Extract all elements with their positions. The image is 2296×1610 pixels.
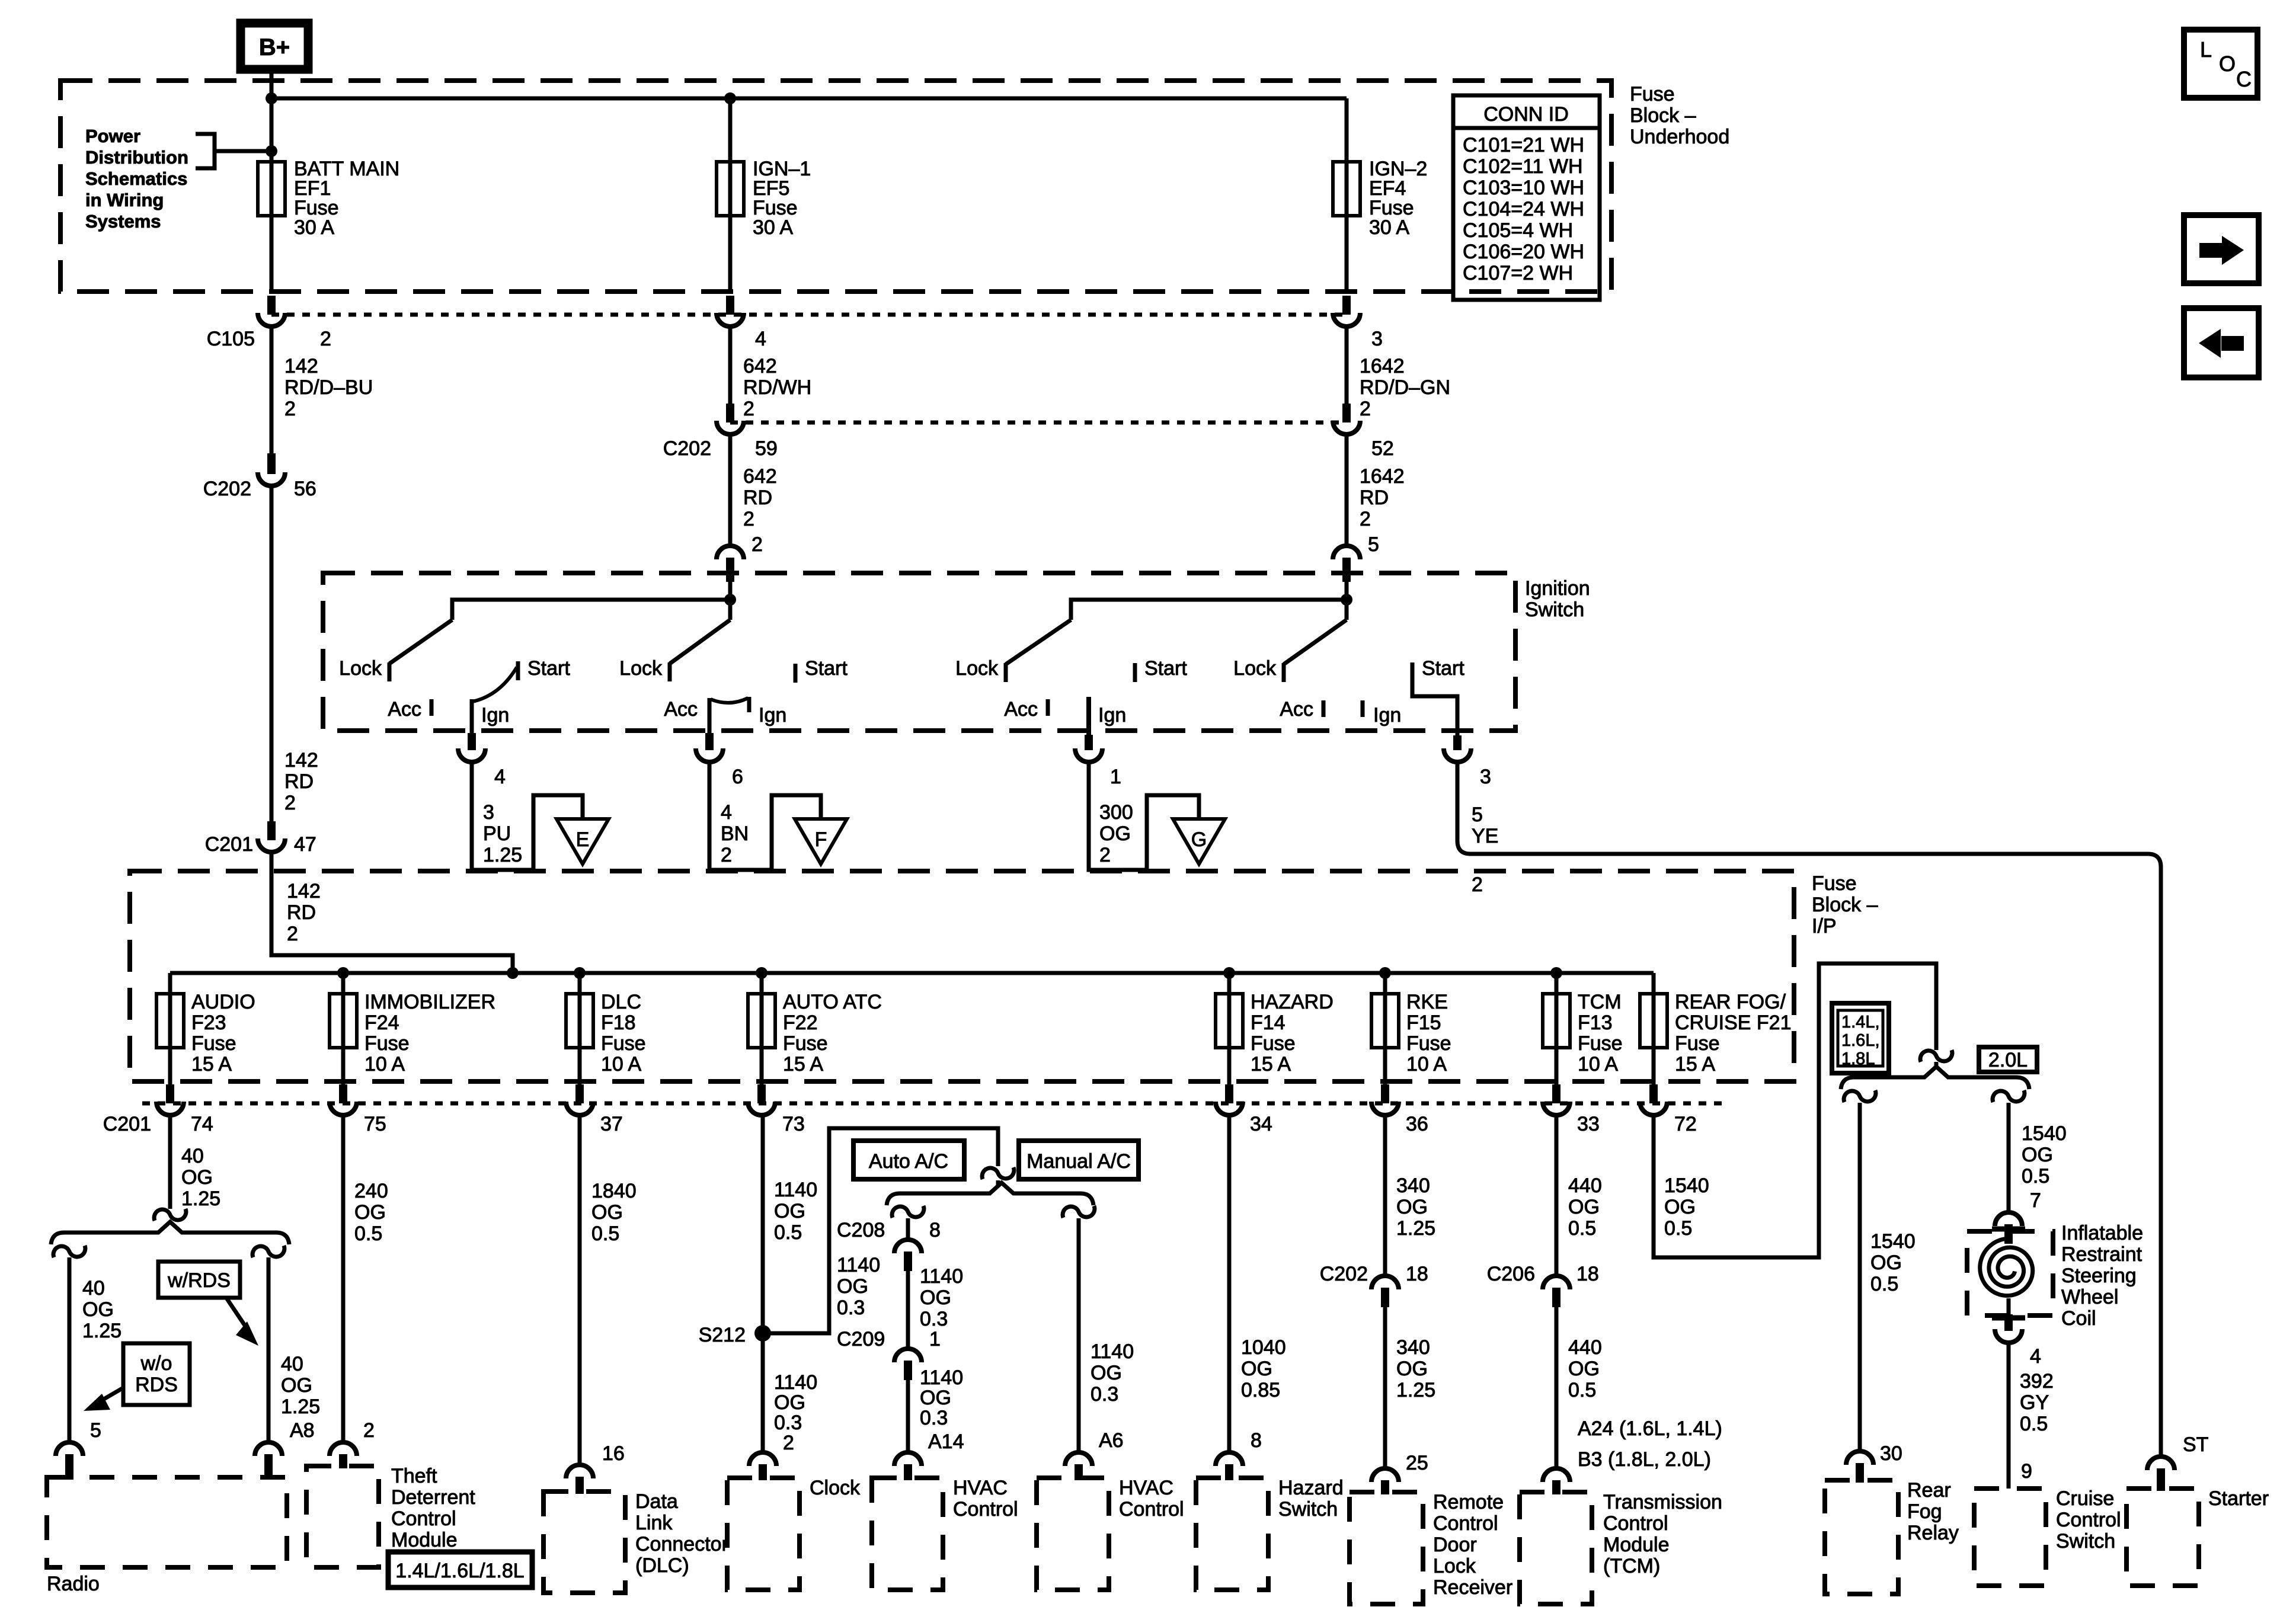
Ignition Switch dashed outline (323, 573, 1515, 731)
svg-text:Lock: Lock (955, 657, 999, 680)
wire section3 Lock arm (1006, 620, 1071, 664)
fuse F13 TCM 10 A (1543, 994, 1570, 1048)
svg-text:Start: Start (805, 657, 848, 680)
svg-text:34: 34 (1250, 1113, 1272, 1135)
connector ignition pin 6 (705, 733, 714, 750)
svg-text:C208: C208 (837, 1219, 885, 1241)
wire IGN-1 feed inside ignition switch (728, 582, 733, 620)
arrow box forward (2184, 215, 2259, 283)
note Power Distribution Schematics in Wiring Systems (85, 126, 188, 232)
pole Ign 1 (470, 699, 474, 733)
svg-text:A8: A8 (290, 1419, 315, 1442)
wire 1840 OG 0.5 (578, 1117, 582, 1463)
wire 1140 OG 0.3 C209 to HVAC (906, 1380, 910, 1451)
connector ignition switch pin 2 (717, 546, 744, 559)
connector Rear Fog Relay pin 30 (1846, 1451, 1873, 1465)
svg-text:18: 18 (1406, 1263, 1428, 1285)
wire 40 OG 1.25 from fuse F23 (168, 1117, 172, 1209)
wire 240 OG 0.5 (341, 1117, 346, 1441)
connector C105 pin 2 (267, 296, 276, 315)
connector C201 pin 73 (757, 1084, 766, 1103)
svg-text:CruiseControlSwitch: CruiseControlSwitch (2056, 1487, 2121, 1553)
Fuse Block - I/P dashed outline (130, 871, 1794, 1081)
wire break audio (154, 1209, 186, 1221)
CONN ID table (1453, 95, 1600, 300)
pole Acc 2 (708, 698, 712, 733)
svg-text:C202: C202 (663, 437, 711, 460)
connector C201 pin 75 (339, 1084, 347, 1103)
svg-text:B+: B+ (259, 34, 290, 60)
wire break engine option (1920, 1050, 1952, 1062)
svg-text:C: C (2236, 67, 2252, 91)
svg-text:1: 1 (929, 1328, 941, 1350)
connector ignition switch pin 5 (1333, 546, 1360, 559)
svg-text:2.0L: 2.0L (1988, 1049, 2028, 1071)
svg-text:C201: C201 (205, 833, 253, 856)
connector coil pin 7 (1995, 1212, 2022, 1226)
svg-text:L: L (2200, 37, 2212, 62)
svg-text:75: 75 (364, 1113, 386, 1135)
connector Radio pin A8 (255, 1442, 282, 1456)
node bus tap F14 (1223, 967, 1235, 979)
svg-text:30: 30 (1880, 1442, 1902, 1465)
svg-text:A24 (1.6L, 1.4L): A24 (1.6L, 1.4L) (1578, 1417, 1722, 1440)
label box w/RDS (158, 1262, 240, 1298)
svg-text:C201: C201 (103, 1113, 151, 1135)
svg-text:25: 25 (1406, 1452, 1428, 1474)
svg-text:3: 3 (1480, 766, 1491, 788)
wire section2 Lock arm (670, 620, 730, 664)
wire section1 Lock arm (389, 620, 452, 664)
svg-text:6: 6 (732, 766, 743, 788)
svg-text:B3 (1.8L, 2.0L): B3 (1.8L, 2.0L) (1578, 1448, 1711, 1471)
contact Lock 3 (1004, 663, 1008, 682)
svg-text:E: E (576, 828, 590, 851)
contact Ign 4 (1361, 700, 1365, 717)
connector C209 pin 1 (894, 1349, 922, 1362)
HVAC Control dashed box (manual) (1037, 1478, 1109, 1590)
svg-text:1: 1 (1110, 766, 1121, 788)
svg-text:Starter: Starter (2208, 1487, 2269, 1510)
connector C201 pin 36 (1381, 1084, 1389, 1103)
arrow w/RDS to wire (227, 1299, 249, 1331)
contact Lock 2 (668, 662, 672, 681)
svg-text:A14: A14 (928, 1430, 964, 1453)
connector row dotted line (C105) (271, 313, 1347, 317)
svg-text:Start: Start (1422, 657, 1464, 680)
svg-text:HazardSwitch: HazardSwitch (1278, 1477, 1344, 1521)
svg-text:Lock: Lock (1233, 657, 1277, 680)
svg-text:5: 5 (90, 1419, 101, 1442)
splice triangle G (1173, 819, 1225, 864)
fuse F24 IMMOBILIZER 10 A (330, 994, 357, 1048)
svg-text:2: 2 (363, 1419, 375, 1442)
svg-text:4: 4 (494, 766, 506, 788)
svg-text:Clock: Clock (810, 1477, 861, 1499)
svg-text:2: 2 (752, 533, 763, 556)
wire 1540 OG 0.5 to steering wheel coil (2007, 1103, 2011, 1211)
svg-text:Start: Start (1144, 657, 1187, 680)
wire break w/o RDS branch (53, 1246, 85, 1257)
fuse F21 REAR FOG/CRUISE 15 A (1640, 994, 1667, 1048)
svg-text:Ign: Ign (1373, 704, 1401, 726)
wire feed to section 3 (1071, 600, 1347, 620)
wire break coil drop (1993, 1090, 2025, 1102)
wire feed to section 1 (452, 600, 730, 620)
svg-text:Radio: Radio (47, 1573, 100, 1595)
wire 1642 RD/D-GN 2 (1345, 328, 1349, 404)
LOC reference box (2184, 30, 2257, 98)
svg-text:Acc: Acc (1280, 698, 1313, 721)
svg-text:CONN ID: CONN ID (1483, 103, 1569, 126)
contact Start 3 (1133, 663, 1137, 682)
splice triangle F (795, 819, 847, 864)
node ignition feed 2 (1341, 594, 1352, 606)
svg-text:C209: C209 (837, 1328, 885, 1350)
connector C201 pin 37 (575, 1084, 584, 1103)
node bus tap F18 (574, 967, 586, 979)
wire 642 RD/WH 2 (728, 328, 733, 404)
connector ignition pin 4 (468, 733, 476, 750)
svg-text:A6: A6 (1099, 1429, 1124, 1452)
svg-text:3: 3 (1371, 328, 1383, 350)
Radio dashed box (47, 1477, 287, 1567)
Theft Deterrent Control Module dashed box (306, 1466, 379, 1567)
label box Manual A/C (1019, 1141, 1139, 1179)
svg-text:52: 52 (1371, 437, 1394, 460)
fuse F23 AUDIO 15 A (156, 994, 184, 1048)
Rear Fog Relay dashed box (1825, 1480, 1898, 1594)
node IGN-1 tap (724, 92, 736, 104)
wire 142 RD 2 feed into I/P fuse block (271, 853, 513, 973)
wire 340 OG 1.25 lower (1383, 1307, 1387, 1467)
svg-text:4: 4 (2030, 1345, 2041, 1368)
label box 1.4L/1.6L/1.8L (388, 1552, 532, 1587)
wire 1140 OG 0.3 C208 to C209 (906, 1271, 910, 1347)
node bus junction at B+ (266, 92, 277, 104)
svg-text:Ign: Ign (481, 704, 509, 726)
wire B+ to BATT MAIN fuse (270, 69, 274, 292)
fuse EF1 BATT MAIN 30 A (258, 162, 285, 216)
fuse F14 HAZARD 15 A (1216, 994, 1243, 1048)
wire 1540 OG 0.5 to rear fog relay (1858, 1103, 1862, 1449)
svg-text:S212: S212 (699, 1324, 746, 1346)
svg-text:IgnitionSwitch: IgnitionSwitch (1525, 577, 1590, 621)
svg-text:2: 2 (1472, 873, 1483, 896)
wire 1540 OG 0.5 from fuse F21 (1654, 964, 1936, 1257)
connector TCM pins A24/B3 (1543, 1468, 1570, 1482)
connector DLC pin 16 (566, 1465, 593, 1478)
Data Link Connector dashed box (543, 1491, 625, 1593)
connector Remote Door Lock Receiver pin 25 (1371, 1468, 1399, 1482)
svg-text:C202: C202 (203, 478, 251, 500)
wire IGN-2 drop (1345, 98, 1349, 292)
wire 642 RD 2 (728, 436, 733, 544)
svg-text:Ign: Ign (1098, 704, 1126, 726)
svg-text:33: 33 (1577, 1113, 1600, 1135)
svg-text:74: 74 (191, 1113, 213, 1135)
connector C201 pin 47 (267, 821, 276, 840)
connector C201 pin 72 (1649, 1084, 1658, 1103)
node feed junction (507, 967, 519, 979)
switch wiper section 1 (Ign to Start) (472, 667, 517, 702)
svg-text:Ign: Ign (759, 704, 786, 726)
svg-text:Acc: Acc (1004, 698, 1038, 721)
svg-text:8: 8 (1251, 1429, 1262, 1452)
wire IGN-1 drop (728, 98, 733, 292)
connector ignition pin 1 (1085, 735, 1093, 750)
connector row dotted line (C201 I/P) (142, 1102, 1722, 1106)
coil contact bar top (1992, 1227, 2025, 1232)
wire IGN-2 feed inside ignition switch (1345, 582, 1349, 620)
HVAC Control dashed box (auto) (872, 1478, 943, 1590)
wire 1040 OG 0.85 (1227, 1117, 1232, 1451)
brace A/C options (887, 1183, 1093, 1205)
brace engine options (1841, 1067, 2029, 1089)
svg-text:36: 36 (1406, 1113, 1428, 1135)
brace radio options (51, 1222, 289, 1244)
svg-text:C101=21 WHC102=11 WHC103=10 WH: C101=21 WHC102=11 WHC103=10 WHC104=24 WH… (1463, 134, 1584, 284)
coil contact bar bottom (1992, 1315, 2025, 1321)
connector C105 pin 4 (IGN-1) (726, 296, 734, 315)
svg-text:2: 2 (783, 1432, 794, 1454)
svg-text:Acc: Acc (664, 698, 698, 721)
node bracket junction (266, 145, 277, 157)
wire 440 OG 0.5 lower (1555, 1307, 1559, 1467)
contact Acc 3 (1046, 699, 1050, 716)
wire 440 OG 0.5 upper (1555, 1117, 1559, 1274)
connector C206 pin 18 (TCM) (1543, 1276, 1570, 1289)
svg-text:16: 16 (602, 1442, 625, 1465)
svg-text:4: 4 (755, 328, 766, 350)
wire Auto A/C to C208 (906, 1218, 910, 1238)
svg-text:TCMF13Fuse10 A: TCMF13Fuse10 A (1578, 991, 1623, 1076)
connector C202 pin 56 (left column) (267, 453, 276, 474)
svg-text:Lock: Lock (339, 657, 382, 680)
svg-text:Auto A/C: Auto A/C (869, 1150, 948, 1173)
label box Auto A/C (853, 1141, 964, 1179)
wire 1642 RD 2 (1345, 436, 1349, 544)
wire 1140 OG 0.3 S212 to Clock (761, 1333, 765, 1451)
coil spiral winding (1980, 1238, 2033, 1296)
svg-text:RKEF15Fuse10 A: RKEF15Fuse10 A (1406, 991, 1451, 1076)
arrow w/o RDS to wire (98, 1388, 123, 1403)
label box 2.0L (1979, 1047, 2037, 1072)
svg-text:w/oRDS: w/oRDS (135, 1352, 178, 1396)
wire 40 OG 1.25 w/o RDS (68, 1257, 72, 1441)
svg-text:5: 5 (1368, 533, 1379, 556)
wire section4 Lock arm (1284, 620, 1347, 664)
pole Ign 3 (1086, 697, 1091, 735)
connector C201 pin 33 (1552, 1084, 1560, 1103)
wire break w/RDS branch (252, 1246, 284, 1257)
svg-text:1.4L,1.6L,1.8L: 1.4L,1.6L,1.8L (1841, 1013, 1880, 1068)
Fuse Block - Underhood dashed outline (60, 81, 1611, 292)
svg-text:1.4L/1.6L/1.8L: 1.4L/1.6L/1.8L (395, 1560, 524, 1582)
svg-text:73: 73 (782, 1113, 805, 1135)
contact Acc 4 (1322, 700, 1326, 717)
wire 1140 OG 0.3 Manual A/C (1077, 1218, 1081, 1451)
Hazard Switch dashed box (1196, 1478, 1268, 1590)
coil wire bottom (2007, 1298, 2011, 1314)
svg-text:37: 37 (600, 1113, 623, 1135)
svg-text:47: 47 (294, 833, 316, 856)
wire 340 OG 1.25 upper (1383, 1117, 1387, 1274)
wire underhood feed bus (271, 97, 1347, 101)
fuse F22 AUTO ATC 15 A (748, 994, 775, 1048)
wire 142 RD 2 (left column) (270, 488, 274, 821)
svg-text:DLCF18Fuse10 A: DLCF18Fuse10 A (601, 991, 646, 1076)
wire break rear fog drop (1844, 1090, 1876, 1102)
connector HVAC Control pin A14 (894, 1452, 922, 1466)
svg-text:F: F (815, 828, 827, 851)
node bus tap F24 (337, 967, 349, 979)
svg-text:7: 7 (2030, 1189, 2041, 1212)
Cruise Control Switch dashed box (1974, 1489, 2046, 1586)
svg-text:O: O (2219, 52, 2236, 76)
connector HVAC Control pin A6 (1065, 1452, 1092, 1466)
connector C202 pin 18 (RKE) (1371, 1276, 1399, 1289)
label box 1.4L 1.6L 1.8L (1832, 1003, 1889, 1073)
connector C105 pin 3 (IGN-2) (1342, 296, 1351, 315)
fuse F18 DLC 10 A (566, 994, 593, 1048)
svg-text:9: 9 (2021, 1460, 2032, 1483)
svg-text:8: 8 (929, 1219, 941, 1241)
wire 40 OG 1.25 w/RDS (267, 1257, 271, 1441)
Transmission Control Module dashed box (1520, 1492, 1592, 1604)
svg-text:2: 2 (320, 328, 331, 350)
connector Starter pin ST (2147, 1457, 2175, 1470)
fuse EF4 IGN-2 30 A (1333, 162, 1360, 216)
wire 142 RD/D-BU 2 (270, 328, 274, 453)
node bus tap F22 (756, 967, 768, 979)
svg-text:G: G (1191, 828, 1207, 851)
svg-text:C105: C105 (207, 328, 255, 350)
svg-text:Start: Start (527, 657, 570, 680)
connector C208 pin 8 (894, 1240, 922, 1253)
node bus tap F13 (1550, 967, 1562, 979)
wire break Auto A/C drop (892, 1206, 924, 1218)
Remote Control Door Lock Receiver dashed box (1350, 1492, 1423, 1604)
svg-text:72: 72 (1674, 1113, 1697, 1135)
svg-text:ST: ST (2183, 1433, 2208, 1456)
Inflatable Restraint Steering Wheel Coil dashed box (1967, 1231, 2053, 1315)
fuse EF5 IGN-1 30 A (717, 162, 744, 216)
contact Start 4 and wire to pin 3 (1412, 662, 1457, 735)
connector row dotted line (C202) (730, 421, 1347, 425)
switch wiper section 2 (Acc to Ign) (711, 698, 748, 703)
Starter dashed box (2126, 1489, 2199, 1586)
contact Start 2 (794, 664, 798, 683)
node bus tap F15 (1379, 967, 1391, 979)
contact Start 1 (516, 661, 520, 680)
connector Clock pin 2 (749, 1452, 776, 1466)
svg-text:C206: C206 (1487, 1263, 1535, 1285)
contact Ign 2 (747, 697, 752, 712)
wire S212 to A/C option brace (763, 1128, 998, 1333)
splice triangle E (557, 819, 609, 864)
wire 1140 OG 0.5 (761, 1117, 765, 1333)
connector Theft Deterrent pin 2 (330, 1442, 357, 1456)
splice S212 (754, 1325, 771, 1342)
svg-text:Manual A/C: Manual A/C (1027, 1150, 1131, 1173)
svg-text:Acc: Acc (388, 698, 421, 721)
connector Radio pin 5 (56, 1442, 83, 1456)
svg-text:56: 56 (294, 478, 316, 500)
contact Lock 1 (388, 662, 392, 681)
wire break A/C option (982, 1167, 1014, 1179)
bracket from note to wire (196, 134, 215, 168)
svg-text:18: 18 (1576, 1263, 1599, 1285)
label box w/o RDS (123, 1343, 190, 1405)
svg-text:w/RDS: w/RDS (167, 1269, 231, 1292)
svg-text:59: 59 (755, 437, 778, 460)
connector C201 pin 74 (166, 1084, 174, 1103)
I/P fuse bus (170, 971, 1654, 975)
contact Acc 1 (430, 699, 434, 716)
wire break Manual A/C drop (1063, 1206, 1095, 1218)
contact Lock 4 (1282, 663, 1286, 682)
svg-text:Lock: Lock (619, 657, 663, 680)
connector C202 pin 59 (726, 404, 734, 422)
node ignition feed 1 (724, 594, 736, 606)
fuse F15 RKE 10 A (1371, 994, 1399, 1048)
connector C202 pin 52 (1342, 404, 1351, 422)
svg-text:C202: C202 (1320, 1263, 1368, 1285)
connector coil pin 4 (2004, 1314, 2013, 1331)
arrow box backward (2184, 308, 2259, 377)
B+ battery feed terminal (241, 23, 308, 69)
wire 392 GY 0.5 (2007, 1345, 2011, 1489)
connector ignition pin 3 (1453, 735, 1462, 750)
Clock dashed box (727, 1478, 800, 1590)
connector C201 pin 34 (1225, 1084, 1233, 1103)
connector Hazard Switch pin 8 (1216, 1452, 1243, 1466)
